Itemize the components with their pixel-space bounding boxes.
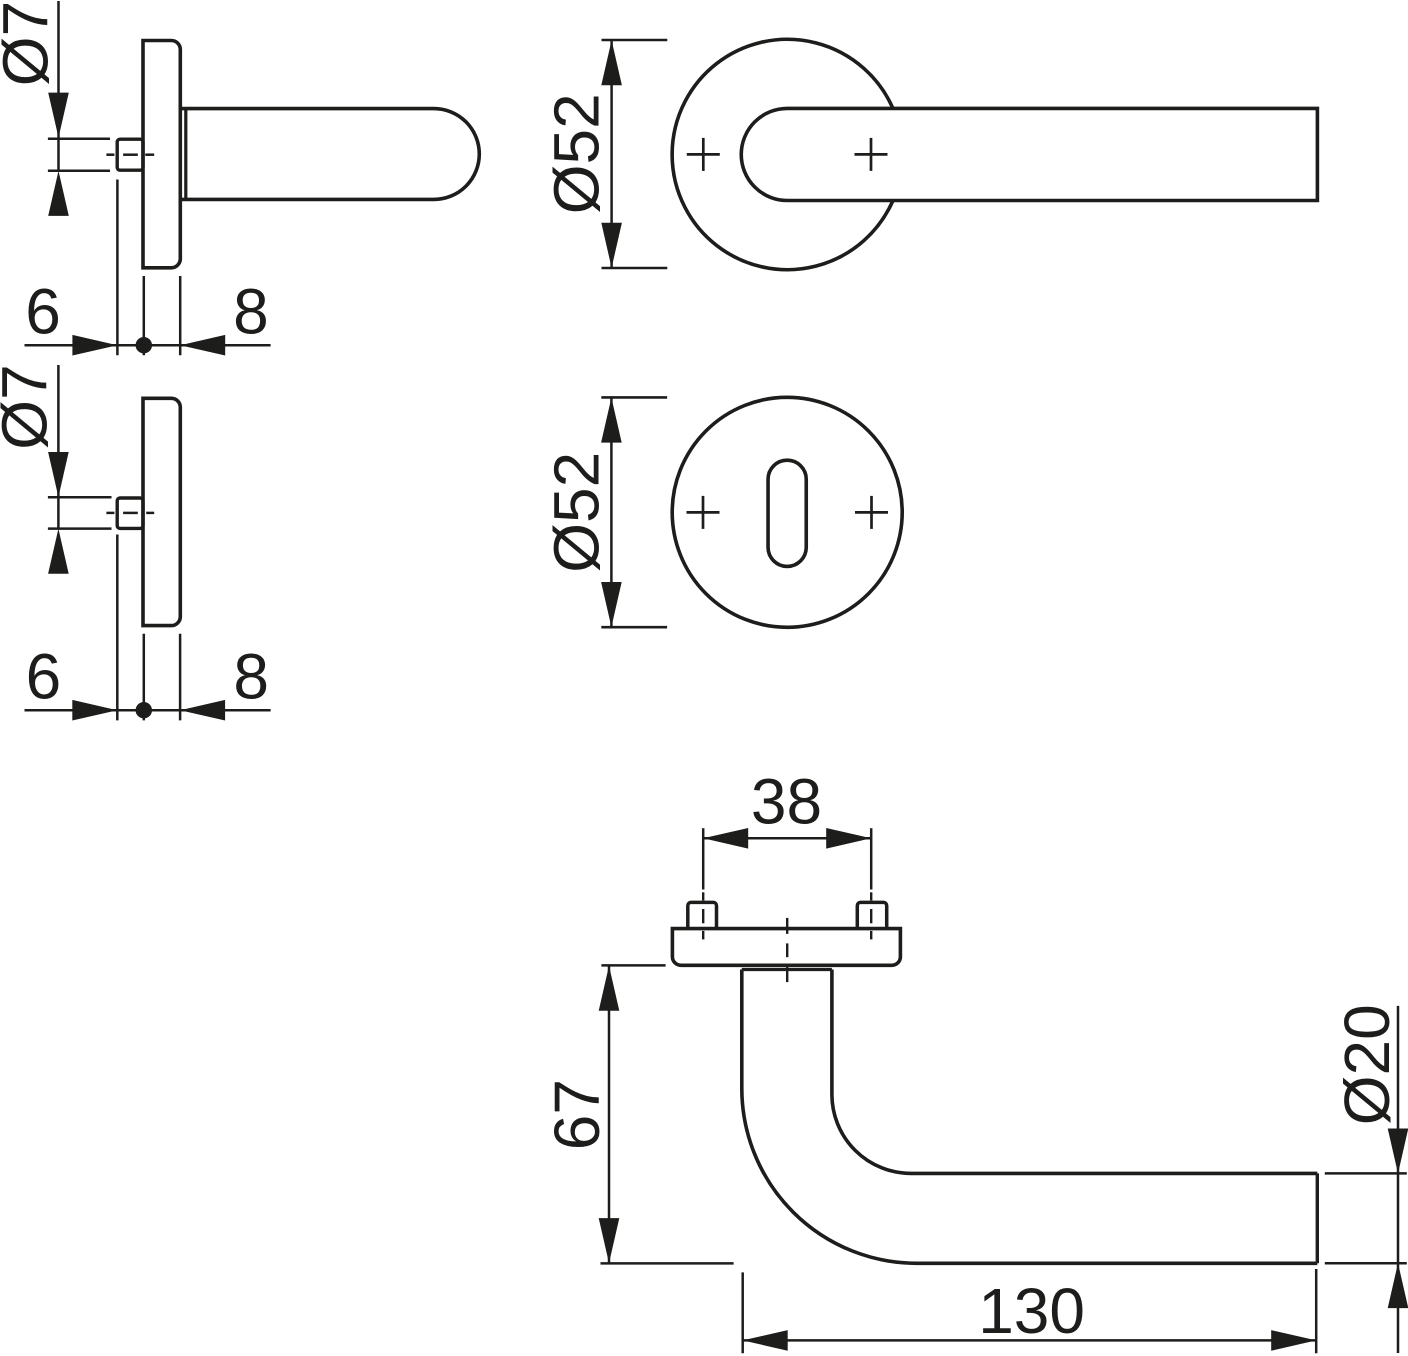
svg-text:8: 8: [233, 276, 269, 348]
dimension line 6 / 8 (lever set): [25, 180, 271, 356]
svg-text:130: 130: [978, 1275, 1085, 1347]
dimension line 6 / 8 (key rose): [25, 535, 271, 721]
lever end face (top view): [1316, 1173, 1319, 1263]
screw boss side view (key rose): [117, 498, 143, 528]
svg-text:67: 67: [541, 1079, 613, 1150]
spindle centerline (lever set): [106, 153, 154, 156]
dimension line Ø52 (key rose): [601, 397, 667, 627]
label 38: [751, 765, 822, 837]
screw axis left: [702, 828, 705, 939]
svg-text:8: 8: [233, 640, 269, 712]
rose plate top view: [672, 929, 900, 966]
label 67: [541, 1079, 613, 1150]
lever grip side view: [181, 109, 480, 200]
dimension line 38: [703, 828, 871, 849]
label 8 (key rose): [233, 640, 269, 712]
keyhole: [768, 460, 806, 566]
svg-text:Ø7: Ø7: [0, 1, 62, 86]
screw cross left (lever rose): [687, 138, 720, 171]
lever inner contour (top view): [832, 970, 1317, 1174]
svg-text:38: 38: [751, 765, 822, 837]
label 8 (lever set): [233, 276, 269, 348]
screw post right: [857, 902, 886, 928]
svg-text:6: 6: [26, 640, 62, 712]
svg-text:Ø52: Ø52: [540, 452, 612, 573]
label Ø52 (lever rose): [541, 93, 613, 214]
rose side view (lever set): [143, 41, 180, 268]
neck shoulder line: [742, 968, 832, 971]
spindle boss side view (lever set): [117, 139, 143, 170]
screw post left: [688, 902, 717, 928]
label Ø52 (key rose): [540, 452, 612, 573]
screw cross right (key rose): [855, 496, 888, 529]
screw cross left (key rose): [687, 496, 720, 529]
spindle axis (top view): [786, 918, 788, 982]
rose side view (key rose): [143, 398, 180, 625]
lever neck line (side view): [184, 109, 187, 200]
dimension line Ø7 (lever set): [48, 1, 110, 216]
rose circle front view (lever set): [672, 39, 893, 269]
svg-text:Ø52: Ø52: [541, 93, 613, 214]
svg-text:Ø7: Ø7: [0, 364, 61, 449]
boss centerline (key rose): [106, 512, 154, 515]
dimension line Ø7 (key rose): [48, 365, 112, 574]
dimension line Ø52 (lever rose): [601, 40, 667, 268]
label 6 (lever set): [25, 276, 61, 348]
label 130: [978, 1275, 1085, 1347]
label Ø7 (lever set): [0, 1, 62, 86]
svg-text:Ø20: Ø20: [1331, 1004, 1403, 1125]
label Ø7 (key rose): [0, 364, 61, 449]
lever outer contour (top view): [742, 970, 1318, 1264]
rose circle front view (key rose): [672, 397, 902, 627]
svg-text:6: 6: [25, 276, 61, 348]
lever front view: [741, 108, 1317, 200]
screw axis right: [870, 828, 873, 939]
label 6 (key rose): [26, 640, 62, 712]
dimension line 67: [599, 965, 734, 1263]
screw cross right (lever rose): [855, 138, 888, 171]
label Ø20: [1331, 1004, 1403, 1125]
dimension line 130: [743, 1269, 1316, 1353]
dimension line Ø20: [1325, 1006, 1408, 1353]
